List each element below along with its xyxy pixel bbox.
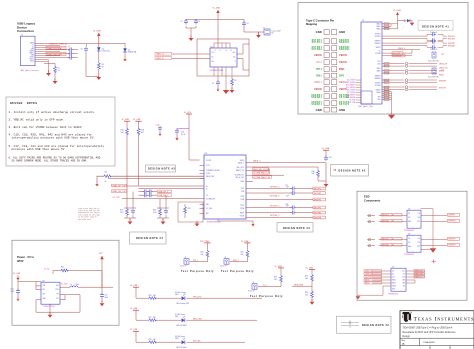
connector J2 (Type-C plug) (358, 20, 382, 108)
svg-text:DESIGN NOTE #2: DESIGN NOTE #2 (362, 324, 389, 327)
ground under D2 (123, 57, 126, 62)
svg-text:IO2: IO2 (408, 217, 410, 219)
net labels row 2 (270, 192, 326, 198)
svg-text:R32: R32 (305, 292, 308, 294)
net labels SSTXP1 SSTXN1 (448, 36, 455, 41)
CC / VCONN wires with labels (382, 50, 412, 58)
LED circuit 1 : power flag (130, 285, 139, 287)
svg-text:SSTXP1: SSTXP1 (314, 188, 321, 190)
svg-text:GND: GND (31, 55, 34, 57)
svg-text:C4: C4 (247, 23, 249, 25)
TVS diode D2 (123, 43, 137, 54)
svg-text:B1_GND: B1_GND (349, 102, 356, 104)
bus boundary rect U1 (197, 39, 249, 76)
svg-text:DN1: DN1 (377, 64, 380, 66)
wire resistor to ground (98, 70, 100, 77)
svg-text:SSTXP1: SSTXP1 (339, 104, 350, 106)
note box DESIGN NOTE #4 (130, 232, 167, 244)
svg-text:VCONN: VCONN (375, 53, 380, 55)
svg-text:IO4: IO4 (418, 217, 420, 219)
wire shield resistor branch (44, 64, 55, 66)
title block border (400, 311, 474, 349)
svg-text:C27 0.1uF: C27 0.1uF (430, 32, 437, 34)
svg-text:USB1_D+: USB1_D+ (156, 54, 165, 56)
svg-text:TP2: TP2 (441, 70, 444, 72)
LED circuit 1 : diode D6 (175, 291, 189, 305)
component SW2 (428, 68, 444, 79)
svg-text:VL_USB: VL_USB (93, 31, 101, 33)
note box DESIGN NOTE #2 (337, 316, 392, 333)
svg-text:SHLD: SHLD (30, 61, 34, 63)
shield termination stack (382, 91, 392, 111)
svg-text:Receptacle 3A MUX with UFP Con: Receptacle 3A MUX with UFP Controller Re… (403, 331, 457, 334)
svg-text:1. Install only if active disc: 1. Install only if active discharge circ… (9, 110, 96, 114)
table row 3 SSTXN1 (311, 47, 350, 51)
svg-text:SSTX-: SSTX- (30, 57, 35, 59)
power flag down (VBUS detect) (95, 182, 98, 187)
svg-text:NC: NC (403, 286, 405, 288)
bypass stub wire (magenta) (177, 128, 189, 130)
ground under R3 (96, 74, 101, 80)
VL_USB pulldown circuit : power flag (322, 148, 330, 150)
svg-text:SSTXN2: SSTXN2 (382, 245, 389, 247)
net label row B right (158, 194, 172, 197)
wire row vconn (246, 174, 284, 176)
svg-text:R29: R29 (274, 277, 277, 279)
svg-text:line routed to the plug: line routed to the plug (78, 214, 99, 216)
svg-text:VBUS: VBUS (314, 87, 322, 91)
svg-text:R27: R27 (149, 317, 152, 319)
svg-text:LED Orange PP5: LED Orange PP5 (176, 302, 189, 305)
svg-text:22uF: 22uF (105, 297, 109, 299)
capacitor C14 (156, 124, 163, 136)
svg-text:VOS: VOS (55, 289, 58, 291)
svg-text:SBU2: SBU2 (377, 71, 381, 73)
svg-text:TPD4E05U06: TPD4E05U06 (404, 254, 414, 256)
resistor R18 (137, 128, 145, 136)
svg-text:SSTXP1: SSTXP1 (382, 215, 389, 217)
test circuit 1 : wire and resistor (190, 243, 209, 262)
svg-text:TP1: TP1 (441, 54, 444, 56)
svg-text:VL_USB: VL_USB (130, 329, 138, 331)
LED circuit 3 : diode D8 (175, 335, 186, 349)
svg-text:R23: R23 (201, 252, 204, 254)
RC pair 2 : resistor R20 (153, 208, 161, 216)
svg-text:VB1: VB1 (402, 280, 405, 282)
note box DESIGN NOTE #5 (331, 165, 369, 177)
series cap row B (139, 193, 158, 197)
svg-text:VCONN_FAULT_IN: VCONN_FAULT_IN (253, 176, 270, 179)
net label row sel (253, 168, 271, 171)
svg-text:VCONN_FLT: VCONN_FLT (235, 175, 244, 177)
svg-text:DESIGN NOTE #5: DESIGN NOTE #5 (339, 169, 366, 172)
svg-text:L1: L1 (71, 284, 73, 286)
RC pair 1 : cap C11 (131, 209, 135, 215)
svg-text:SSRXP2: SSRXP2 (439, 80, 446, 82)
wire row 2 to U2 (139, 188, 204, 190)
svg-text:VBUS_SNS: VBUS_SNS (294, 284, 304, 286)
svg-text:C3: C3 (198, 21, 200, 23)
svg-text:FB: FB (57, 294, 59, 296)
svg-text:10uF: 10uF (11, 291, 15, 293)
wire shield to ground (35, 60, 49, 73)
svg-text:VCC33: VCC33 (206, 160, 211, 162)
net label box DNP pair 2 (46, 52, 66, 56)
divider : bottom resistor R32 (305, 290, 313, 301)
ESD section title (364, 195, 381, 203)
svg-text:Power - 5V to: Power - 5V to (17, 255, 34, 259)
net labels row 5 (270, 211, 326, 217)
LED circuit 3 : power flag (130, 329, 139, 331)
svg-text:Header TP: Header TP (180, 266, 187, 268)
svg-text:TUSB542RWQR: TUSB542RWQR (207, 222, 222, 224)
U1 input wires (172, 54, 210, 59)
divider : ground (310, 299, 315, 305)
svg-text:VBUS_C: VBUS_C (415, 277, 423, 279)
svg-text:3P3V: 3P3V (17, 259, 24, 263)
net label row A right (158, 190, 172, 193)
svg-text:SSRXN2: SSRXN2 (374, 78, 380, 80)
svg-text:DESIGN NOTE #1: DESIGN NOTE #1 (422, 26, 449, 29)
note box DESIGN NOTE #3 (left of U2) (146, 165, 176, 172)
svg-text:SSTXP2: SSTXP2 (375, 83, 381, 85)
wire row sel (246, 166, 318, 168)
LED circuit 2 : power flag (130, 308, 139, 310)
cap C2 (181, 19, 189, 25)
svg-text:0.1uF: 0.1uF (181, 134, 185, 136)
feedforward resistor R25 (53, 267, 102, 288)
svg-text:VBUS: VBUS (314, 53, 322, 57)
termination resistor boxes GND pins (384, 23, 389, 30)
svg-text:Components: Components (364, 198, 381, 202)
Type-C section border (298, 3, 468, 115)
svg-text:R28: R28 (149, 339, 152, 341)
svg-text:SSTXP2_C: SSTXP2_C (270, 206, 280, 208)
svg-text:RX2P: RX2P (240, 213, 244, 215)
resistor R3 (97, 62, 104, 70)
svg-text:SSRXN1: SSRXN1 (374, 43, 380, 45)
svg-text:GND: GND (408, 221, 411, 223)
svg-text:LED C/R MUX: LED C/R MUX (176, 325, 188, 327)
svg-text:SSTXP1: SSTXP1 (375, 34, 381, 36)
U7 right wires and labels (406, 270, 425, 283)
svg-text:Scale TBD TBD: Scale TBD TBD (428, 61, 439, 63)
Type-C section title (306, 19, 334, 27)
DP1 row with jack (382, 62, 448, 65)
LED D5 green (97, 47, 110, 52)
net label CC wire row 1 (112, 184, 127, 187)
wire pullup 1 (126, 121, 128, 186)
svg-text:SSRXN1: SSRXN1 (311, 97, 322, 99)
ground under connector (46, 70, 51, 76)
U1 top pin stubs (214, 43, 230, 48)
table row 6 DP1 (316, 67, 345, 71)
ESD ground arrow (430, 247, 436, 253)
svg-text:SSTXN1_C: SSTXN1_C (270, 195, 280, 197)
svg-text:connected of the long CC: connected of the long CC (78, 212, 100, 214)
svg-text:TXP: TXP (241, 188, 244, 190)
SSRX pair wires to RC networks (382, 43, 427, 46)
svg-text:USB2_DP: USB2_DP (415, 271, 424, 273)
svg-text:VBUS: VBUS (339, 60, 347, 64)
svg-text:SBU2: SBU2 (392, 283, 396, 285)
power section border (12, 240, 119, 325)
svg-text:330: 330 (153, 339, 156, 341)
svg-text:R26: R26 (149, 295, 152, 297)
svg-text:1uF: 1uF (286, 206, 289, 208)
svg-text:SSRXP1: SSRXP1 (311, 104, 322, 106)
svg-text:C5: C5 (212, 83, 214, 85)
output cap C15 (100, 287, 108, 303)
svg-text:R2: R2 (235, 80, 237, 82)
LED circuit 2 : wire (136, 310, 257, 320)
J2 left side pin labels (magenta) (346, 79, 356, 105)
svg-text:Type-C Connector Pin: Type-C Connector Pin (306, 19, 334, 23)
wire VBUS rail (35, 43, 125, 45)
U5 left wires (367, 213, 407, 223)
svg-text:S: S (234, 61, 235, 63)
bypass caps C2 C3 wires (186, 20, 218, 38)
test circuit 1 : power flag PP5_PWR (200, 241, 211, 243)
connector J1 (20, 35, 39, 73)
wire row fault (246, 170, 270, 172)
pin mapping table squares (324, 30, 337, 112)
svg-text:TIDA-00987 USB Type-C™ Plug-to: TIDA-00987 USB Type-C™ Plug-to-USB Type-… (403, 327, 453, 330)
svg-text:SBU1: SBU1 (392, 280, 396, 282)
component SW1 (428, 52, 444, 63)
svg-text:ESD: ESD (364, 195, 370, 199)
ESD IC U6 (404, 234, 421, 257)
svg-text:SSRXN1: SSRXN1 (448, 221, 455, 223)
svg-text:USB2_DP2 DNP: USB2_DP2 DNP (47, 48, 63, 50)
VBUS1 wire with label (382, 48, 420, 50)
RC pair 2 : cap C12 (164, 209, 168, 215)
svg-text:SSTXP2: SSTXP2 (439, 87, 446, 89)
svg-text:USB2_DN: USB2_DN (415, 274, 424, 276)
svg-text:B2_SSTXP2: B2_SSTXP2 (347, 90, 356, 92)
svg-text:B10_SSRXP1: B10_SSRXP1 (346, 85, 356, 87)
LED circuit 1 : resistor R26 (148, 295, 157, 300)
svg-text:VB2: VB2 (402, 283, 405, 285)
svg-text:IO3: IO3 (418, 213, 420, 215)
svg-text:PP5_T: PP5_T (193, 260, 198, 262)
thermistor network box (178, 202, 204, 223)
wire SSRX+ w/ cap (35, 53, 78, 55)
series cap row A (139, 190, 158, 194)
power flag VL_USB pullup 2 (133, 119, 142, 121)
svg-text:CC2: CC2 (402, 277, 405, 279)
test circuit 2 : power flag VL_USB (241, 241, 251, 243)
power flag VL_USB input (13, 273, 21, 280)
svg-text:0603: 0603 (175, 338, 179, 340)
svg-text:C6: C6 (81, 49, 83, 51)
U1 bottom pin stubs (214, 67, 232, 82)
svg-text:GND4: GND4 (376, 92, 380, 94)
svg-text:Test Purpose Only: Test Purpose Only (221, 270, 254, 273)
svg-text:0603: 0603 (175, 294, 179, 296)
ESD section border (357, 191, 467, 300)
wire row 1 to U2 (127, 185, 204, 187)
svg-text:CC1: CC1 (392, 277, 395, 279)
svg-text:R24: R24 (241, 252, 244, 254)
SS row 5 wire RXN with cap (246, 211, 313, 215)
net label USB1_D- input (155, 57, 172, 60)
svg-text:0603: 0603 (175, 316, 179, 318)
wire USB D+ to U2 (97, 176, 204, 181)
cap C4 right of U1 (218, 20, 249, 33)
ground near Y1 (256, 32, 261, 38)
svg-text:SBU2: SBU2 (365, 283, 369, 285)
ground under U1 (230, 87, 235, 93)
wire VBUS_C long to pulldown (246, 162, 326, 164)
svg-text:VCONN_FAULT_N: VCONN_FAULT_N (253, 172, 270, 175)
EN tie wire (36, 282, 41, 290)
svg-text:CC_SEL: CC_SEL (206, 208, 212, 210)
svg-text:D+: D+ (206, 186, 208, 188)
svg-text:DP1: DP1 (316, 67, 322, 71)
svg-text:OE: OE (212, 61, 214, 63)
RC pair 1 : ground (128, 219, 133, 225)
svg-text:VCONN_EN: VCONN_EN (206, 198, 216, 200)
svg-text:DESIGN NOTE #3: DESIGN NOTE #3 (283, 227, 310, 230)
test circuit 3 : wire and resistor (258, 268, 282, 287)
net labels SSRXP1 SSRXN1 (448, 43, 455, 48)
svg-text:VBUS: VBUS (339, 53, 347, 57)
svg-text:LED Green: LED Green (102, 50, 111, 53)
net label box DNP pair 1 (46, 46, 66, 50)
svg-text:on the other side of: on the other side of (78, 217, 97, 219)
svg-text:C10: C10 (68, 54, 71, 56)
svg-text:CTL1: CTL1 (206, 165, 210, 167)
ground under C15 (100, 301, 105, 307)
pulldown vertical wire (318, 150, 326, 182)
power section title (17, 255, 34, 263)
table row 1 GND (316, 30, 346, 34)
resistor R4 (103, 171, 112, 183)
svg-text:VDD5: VDD5 (240, 160, 244, 162)
power flag VL_USB at connector (393, 10, 401, 29)
svg-text:J5: J5 (253, 282, 255, 284)
svg-text:DESIGN NOTE #4: DESIGN NOTE #4 (136, 237, 163, 240)
table row 7 DN1 (316, 74, 345, 78)
svg-text:DESIGN NOTES: DESIGN NOTES (10, 102, 37, 105)
svg-text:SSTXN2: SSTXN2 (311, 49, 322, 51)
connector bottom ground (388, 111, 395, 119)
svg-text:SSTXN1: SSTXN1 (448, 39, 455, 41)
test circuit 1 : jumper J3 (180, 257, 189, 268)
cap C24 (324, 156, 332, 162)
svg-text:USB1_DN_TOP: USB1_DN_TOP (112, 191, 126, 193)
svg-text:VL_USB: VL_USB (130, 308, 138, 310)
wire U1 power (217, 11, 219, 49)
coupling cap C10 (68, 54, 74, 59)
wire VL_3V3 down (189, 114, 200, 160)
svg-text:USB1_DN: USB1_DN (365, 274, 374, 276)
svg-text:330: 330 (153, 317, 156, 319)
svg-text:USB1_DP_TOP: USB1_DP_TOP (112, 185, 126, 187)
svg-text:GND: GND (408, 246, 411, 248)
resistor R16 (121, 128, 129, 136)
svg-text:SSRXP1: SSRXP1 (339, 42, 350, 44)
test circuit 2 : jumper J4 (220, 257, 229, 268)
power mark near U7 (432, 259, 437, 263)
svg-text:1D+: 1D+ (212, 52, 215, 54)
svg-text:DP1: DP1 (378, 61, 381, 63)
svg-text:SSRXP1: SSRXP1 (448, 215, 455, 217)
svg-text:Test Purpose Only: Test Purpose Only (181, 270, 214, 273)
svg-text:C28 0.1uF: C28 0.1uF (430, 49, 437, 51)
svg-text:SSRX-: SSRX- (30, 51, 35, 53)
design notes box (6, 97, 115, 166)
U5 right wires (421, 209, 460, 248)
svg-text:FLIP1: FLIP1 (206, 173, 210, 175)
svg-text:SSRX+: SSRX+ (29, 53, 34, 55)
U7 ground wire (356, 295, 383, 299)
wire VL_USB rail drop (98, 44, 100, 48)
table row 5 CC1 (316, 60, 347, 64)
svg-text:VL_USB: VL_USB (213, 8, 221, 10)
svg-text:USB_Typec_Connector: USB_Typec_Connector (20, 69, 39, 72)
test circuit 3 : power flag VL_USB (275, 266, 285, 268)
LED circuit 3 : wire (136, 331, 245, 342)
LED circuit 1 : wire (136, 287, 262, 298)
svg-text:D+: D+ (32, 47, 34, 49)
wire D- (35, 45, 60, 47)
table row 12 GND (316, 108, 346, 112)
svg-text:SH1: SH1 (378, 97, 381, 99)
svg-text:Header TP: Header TP (248, 291, 255, 293)
svg-text:USB1_D-: USB1_D- (156, 58, 164, 60)
table row 2 SSTXP1 (312, 40, 351, 44)
divider : power flag VL_USB (306, 267, 316, 269)
svg-text:C24: C24 (329, 157, 332, 159)
wire D+ (35, 47, 60, 49)
svg-text:PD_LED: PD_LED (193, 340, 201, 342)
svg-text:MUX_LED: MUX_LED (193, 318, 203, 320)
input wire (18, 280, 41, 290)
svg-text:Design: Design (403, 336, 411, 338)
svg-text:VL_5V: VL_5V (44, 269, 50, 271)
svg-text:VL_3V3: VL_3V3 (184, 112, 191, 114)
svg-text:TPS62177DQC: TPS62177DQC (43, 306, 56, 308)
svg-text:IO2: IO2 (408, 242, 410, 244)
net label vconn (253, 176, 272, 179)
capacitor C13 (175, 129, 185, 141)
svg-text:330: 330 (153, 295, 156, 297)
svg-text:V: V (214, 50, 215, 52)
coupling cap C8 (68, 46, 74, 51)
svg-text:SSTXN2_C: SSTXN2_C (270, 215, 280, 217)
test circuit 2 : wire and resistor (230, 243, 249, 262)
RC pair 1 : wires (124, 186, 136, 221)
SS row 4 wire RXP with cap (246, 206, 313, 210)
svg-text:IO3: IO3 (418, 238, 420, 240)
size cell (402, 340, 436, 346)
LED circuit 2 : resistor R27 (148, 317, 157, 322)
svg-text:SBU1: SBU1 (365, 280, 369, 282)
svg-text:USB1_DP: USB1_DP (365, 271, 374, 273)
ESD IC U7 (388, 267, 406, 296)
svg-text:GND: GND (339, 30, 345, 34)
net labels row 4 (270, 206, 326, 210)
U6 right wires (421, 237, 460, 249)
svg-text:SBU2: SBU2 (439, 75, 444, 77)
SS row 3 straight wire (246, 198, 326, 201)
TI logo (402, 312, 412, 322)
svg-text:GND1: GND1 (376, 24, 380, 26)
svg-text:SSRXN1: SSRXN1 (339, 49, 350, 51)
wire GND pin (35, 51, 60, 53)
